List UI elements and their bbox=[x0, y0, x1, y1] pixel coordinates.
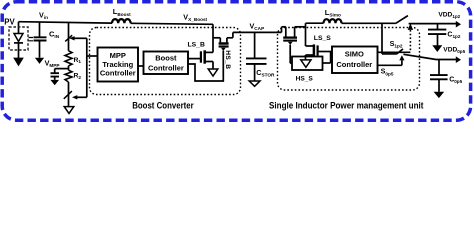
svg-text:Boost Converter: Boost Converter bbox=[132, 100, 194, 110]
svg-text:HS_B: HS_B bbox=[224, 50, 231, 69]
svg-text:PV: PV bbox=[4, 17, 15, 26]
svg-text:LS_B: LS_B bbox=[188, 42, 205, 49]
svg-text:Boost: Boost bbox=[155, 54, 177, 63]
svg-text:Controller: Controller bbox=[100, 69, 136, 78]
svg-text:Tracking: Tracking bbox=[102, 60, 133, 69]
svg-text:MPP: MPP bbox=[110, 51, 126, 60]
svg-text:SIMO: SIMO bbox=[345, 50, 364, 59]
svg-text:HS_S: HS_S bbox=[296, 75, 314, 82]
svg-text:LS_S: LS_S bbox=[314, 35, 331, 42]
svg-text:Single Inductor Power manageme: Single Inductor Power management unit bbox=[269, 101, 424, 111]
svg-text:Controller: Controller bbox=[148, 64, 184, 73]
svg-text:Controller: Controller bbox=[336, 60, 372, 69]
